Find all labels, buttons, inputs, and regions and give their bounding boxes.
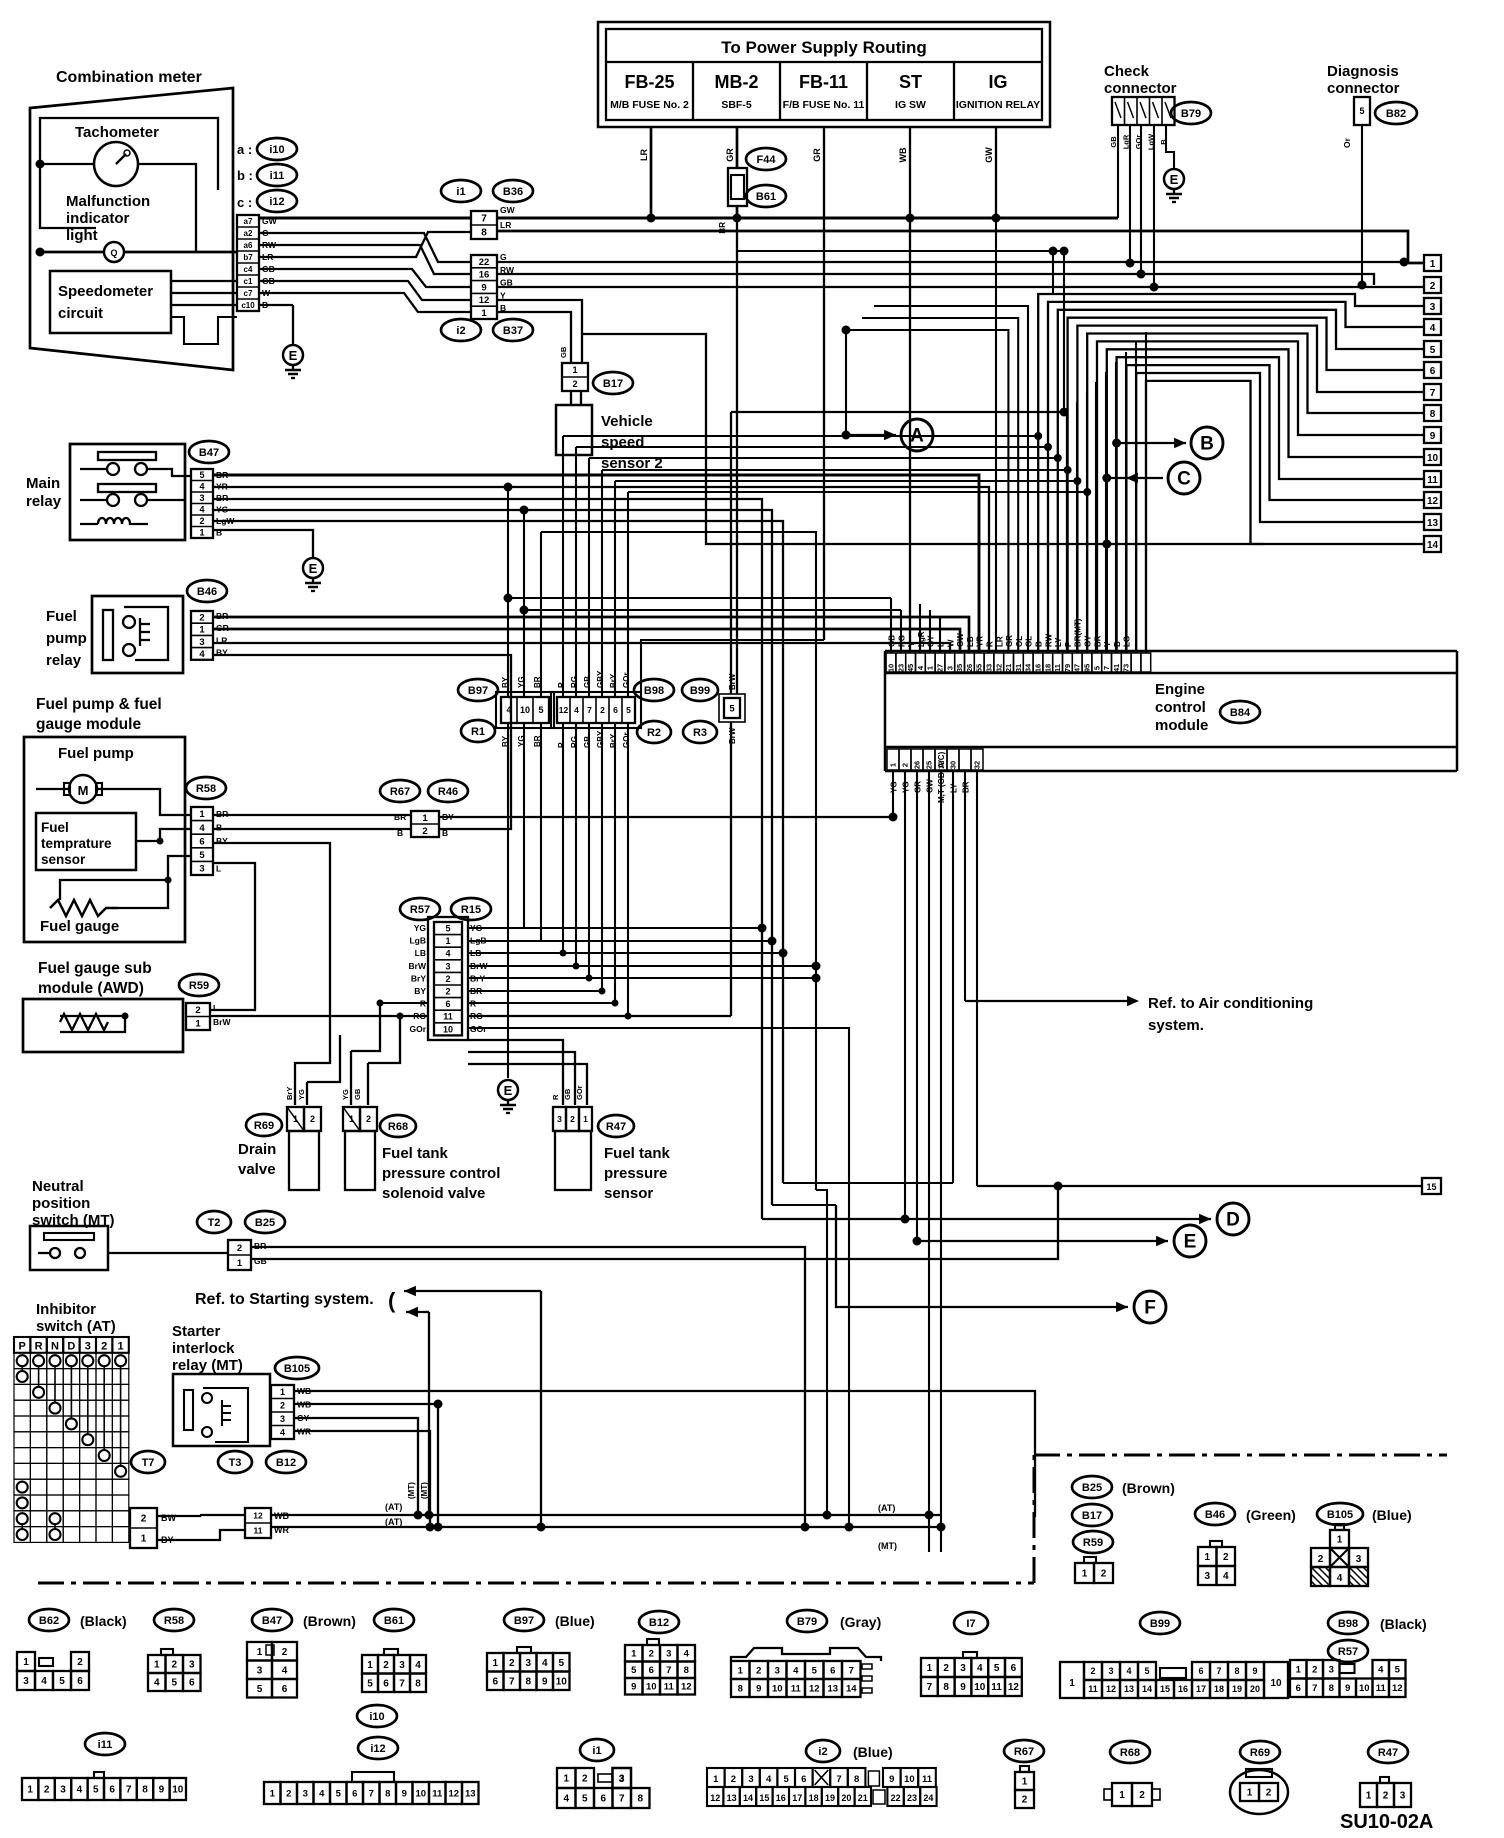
svg-text:RG: RG	[570, 676, 579, 688]
svg-text:1: 1	[280, 1387, 285, 1397]
svg-text:c10: c10	[241, 301, 255, 310]
svg-text:10: 10	[415, 1788, 426, 1799]
svg-text:5: 5	[729, 703, 735, 714]
svg-text:B36: B36	[503, 186, 523, 198]
svg-text:IG: IG	[988, 72, 1007, 92]
svg-text:1: 1	[927, 1663, 933, 1674]
svg-text:10: 10	[443, 1024, 453, 1034]
svg-text:LB: LB	[415, 948, 426, 958]
svg-text:1: 1	[926, 666, 935, 670]
svg-text:3: 3	[1430, 302, 1436, 313]
svg-text:GB: GB	[583, 676, 592, 688]
svg-text:12: 12	[448, 1788, 459, 1799]
svg-text:B: B	[1113, 641, 1122, 647]
svg-text:45: 45	[906, 664, 915, 672]
svg-text:R: R	[35, 1341, 43, 1353]
svg-text:4: 4	[319, 1788, 325, 1799]
svg-text:2: 2	[44, 1785, 50, 1796]
svg-text:R59: R59	[1083, 1537, 1103, 1549]
svg-text:c4: c4	[244, 265, 253, 274]
svg-text:9: 9	[631, 1682, 636, 1693]
svg-text:C: C	[1177, 469, 1191, 490]
svg-text:5: 5	[994, 1663, 1000, 1674]
svg-text:9: 9	[960, 1682, 966, 1693]
svg-text:14: 14	[1142, 1684, 1152, 1694]
svg-text:2: 2	[366, 1114, 371, 1124]
svg-text:6: 6	[199, 836, 204, 847]
svg-text:1: 1	[237, 1258, 243, 1269]
svg-text:14: 14	[846, 1683, 857, 1694]
svg-text:1: 1	[481, 308, 487, 319]
svg-text:(Brown): (Brown)	[303, 1613, 356, 1629]
svg-text:(MT): (MT)	[407, 1482, 416, 1499]
svg-text:2: 2	[286, 1788, 291, 1799]
svg-text:1: 1	[631, 1649, 637, 1660]
svg-text:3: 3	[60, 1785, 66, 1796]
svg-text:13: 13	[727, 1793, 737, 1803]
svg-text:B17: B17	[1082, 1510, 1102, 1522]
svg-text:34: 34	[1024, 663, 1033, 672]
svg-text:10: 10	[974, 1682, 986, 1693]
svg-text:c1: c1	[244, 277, 253, 286]
svg-text:30: 30	[949, 761, 958, 769]
svg-text:B99: B99	[690, 685, 710, 697]
svg-text:GOr: GOr	[409, 1024, 426, 1034]
svg-text:11: 11	[1053, 664, 1062, 672]
svg-text:2: 2	[310, 1114, 315, 1124]
svg-text:11: 11	[432, 1788, 443, 1799]
svg-text:(Blue): (Blue)	[1372, 1507, 1412, 1523]
svg-text:B99: B99	[1150, 1618, 1170, 1630]
svg-text:R69: R69	[254, 1120, 274, 1132]
svg-text:4: 4	[199, 481, 204, 491]
svg-text:4: 4	[766, 1774, 772, 1785]
svg-text:i2: i2	[818, 1746, 827, 1758]
svg-text:4: 4	[199, 823, 205, 834]
svg-text:GB: GB	[1109, 136, 1118, 148]
svg-text:B105: B105	[1327, 1509, 1353, 1521]
svg-text:Fuel: Fuel	[46, 608, 77, 625]
svg-text:18: 18	[1043, 664, 1052, 672]
svg-text:Check: Check	[1104, 63, 1150, 80]
svg-text:7: 7	[927, 1682, 933, 1693]
svg-text:8: 8	[1329, 1683, 1334, 1694]
svg-text:BrY: BrY	[411, 973, 426, 983]
svg-text:B105: B105	[284, 1363, 310, 1375]
svg-text:6: 6	[352, 1788, 357, 1799]
svg-text:T3: T3	[229, 1457, 242, 1469]
svg-text:SBF-5: SBF-5	[721, 99, 751, 111]
svg-text:8: 8	[1430, 409, 1436, 420]
svg-text:6: 6	[77, 1676, 83, 1687]
svg-text:R67: R67	[1014, 1746, 1034, 1758]
svg-text:2: 2	[422, 826, 427, 837]
svg-text:1: 1	[257, 1647, 263, 1658]
svg-text:R15: R15	[461, 904, 481, 916]
svg-text:LG: LG	[1123, 636, 1132, 647]
svg-text:11: 11	[791, 1683, 802, 1694]
svg-text:27: 27	[936, 664, 945, 672]
svg-text:FB-25: FB-25	[624, 72, 674, 92]
svg-text:sensor: sensor	[41, 852, 86, 867]
svg-text:i10: i10	[369, 1711, 384, 1723]
svg-text:24: 24	[923, 1793, 933, 1803]
svg-text:(: (	[388, 1288, 396, 1313]
svg-text:3: 3	[445, 961, 450, 971]
svg-text:4: 4	[793, 1665, 799, 1676]
svg-text:F44: F44	[757, 154, 777, 166]
svg-text:17: 17	[1196, 1684, 1206, 1694]
svg-text:9: 9	[1345, 1683, 1350, 1694]
svg-text:3: 3	[85, 1341, 91, 1353]
svg-text:2: 2	[901, 763, 910, 767]
svg-text:M: M	[78, 783, 89, 798]
svg-text:BR(MT): BR(MT)	[1074, 618, 1083, 647]
svg-text:9: 9	[159, 1785, 165, 1796]
svg-text:GR: GR	[812, 148, 822, 162]
svg-text:11: 11	[443, 1012, 453, 1022]
svg-text:2: 2	[1312, 1665, 1317, 1676]
svg-text:13: 13	[1124, 1684, 1134, 1694]
svg-text:Fuel: Fuel	[41, 820, 69, 835]
svg-text:10: 10	[1359, 1683, 1370, 1694]
svg-text:light: light	[66, 227, 98, 244]
svg-text:13: 13	[1427, 518, 1439, 529]
svg-text:6: 6	[600, 1794, 606, 1805]
svg-text:L: L	[216, 863, 221, 873]
svg-text:R1: R1	[471, 726, 485, 738]
svg-text:(MT): (MT)	[878, 1541, 897, 1551]
svg-text:interlock: interlock	[172, 1340, 235, 1357]
svg-text:LgR: LgR	[917, 631, 926, 647]
svg-text:1: 1	[118, 1341, 124, 1353]
svg-text:79: 79	[1063, 664, 1072, 672]
svg-text:19: 19	[1232, 1684, 1242, 1694]
svg-text:3: 3	[189, 1660, 195, 1671]
svg-text:R57: R57	[1338, 1646, 1358, 1658]
svg-text:19: 19	[825, 1793, 835, 1803]
svg-text:5: 5	[1430, 345, 1436, 356]
svg-text:3: 3	[1108, 1666, 1113, 1676]
svg-text:21: 21	[1004, 664, 1013, 672]
svg-text:5: 5	[1359, 106, 1364, 116]
svg-text:system.: system.	[1148, 1017, 1204, 1034]
svg-text:1: 1	[1296, 1665, 1302, 1676]
svg-text:G: G	[500, 252, 507, 262]
svg-text:8: 8	[385, 1788, 390, 1799]
svg-text:B12: B12	[649, 1617, 669, 1629]
svg-text:7: 7	[619, 1794, 625, 1805]
svg-text:To Power Supply Routing: To Power Supply Routing	[721, 38, 927, 57]
svg-text:GB: GB	[254, 1256, 267, 1266]
svg-text:1: 1	[492, 1658, 498, 1669]
svg-text:10: 10	[646, 1682, 657, 1693]
svg-text:21: 21	[858, 1793, 868, 1803]
svg-text:3: 3	[199, 493, 204, 503]
svg-text:BrW: BrW	[409, 961, 427, 971]
svg-text:4: 4	[199, 504, 204, 514]
svg-text:16: 16	[1034, 664, 1043, 672]
svg-text:Fuel gauge sub: Fuel gauge sub	[38, 960, 152, 977]
svg-text:R47: R47	[606, 1121, 626, 1133]
svg-text:temprature: temprature	[41, 836, 112, 851]
svg-text:3: 3	[525, 1658, 531, 1669]
svg-text:9: 9	[402, 1788, 407, 1799]
svg-text:2: 2	[195, 1005, 200, 1016]
svg-text:D: D	[67, 1341, 75, 1353]
svg-text:5: 5	[199, 470, 204, 480]
svg-text:10: 10	[520, 705, 530, 715]
svg-text:5: 5	[336, 1788, 342, 1799]
svg-text:4: 4	[1378, 1665, 1384, 1676]
svg-text:B17: B17	[603, 378, 623, 390]
svg-text:6: 6	[1198, 1666, 1203, 1676]
svg-text:20: 20	[1250, 1684, 1260, 1694]
svg-text:B84: B84	[1230, 707, 1251, 719]
svg-text:B98: B98	[644, 685, 664, 697]
svg-text:RW: RW	[1044, 633, 1053, 647]
svg-text:9: 9	[481, 282, 486, 293]
svg-text:R: R	[557, 682, 566, 688]
svg-text:3: 3	[557, 1114, 562, 1124]
svg-text:6: 6	[1296, 1683, 1301, 1694]
svg-text:10: 10	[1427, 453, 1439, 464]
svg-text:B79: B79	[1181, 108, 1201, 120]
svg-text:73: 73	[1122, 664, 1131, 672]
svg-text:Ref. to Air conditioning: Ref. to Air conditioning	[1148, 995, 1313, 1012]
svg-text:8: 8	[637, 1794, 643, 1805]
svg-text:41: 41	[1112, 664, 1121, 672]
svg-text:8: 8	[481, 228, 487, 239]
svg-text:5: 5	[538, 705, 543, 715]
svg-text:6: 6	[613, 705, 618, 715]
svg-text:(Black): (Black)	[80, 1613, 127, 1629]
svg-text:3: 3	[1329, 1665, 1334, 1676]
svg-text:SU10-02A: SU10-02A	[1340, 1811, 1433, 1833]
svg-text:6: 6	[801, 1774, 806, 1785]
svg-text:7: 7	[849, 1665, 854, 1676]
svg-text:5: 5	[445, 924, 450, 934]
svg-text:33: 33	[985, 664, 994, 672]
svg-text:LR: LR	[639, 149, 649, 161]
svg-text:BrY: BrY	[609, 673, 618, 688]
svg-text:2: 2	[570, 1114, 575, 1124]
svg-text:4: 4	[199, 649, 205, 660]
svg-text:Y: Y	[1103, 641, 1112, 647]
svg-text:R46: R46	[438, 786, 458, 798]
svg-text:YG: YG	[414, 923, 427, 933]
svg-text:1: 1	[563, 1774, 569, 1785]
svg-text:1: 1	[1022, 1777, 1028, 1788]
svg-text:8: 8	[142, 1785, 148, 1796]
svg-text:1: 1	[572, 365, 577, 375]
svg-text:BW: BW	[161, 1513, 176, 1523]
svg-text:16: 16	[479, 270, 490, 281]
svg-text:12: 12	[479, 295, 490, 306]
svg-text:c :: c :	[237, 195, 252, 210]
svg-text:8: 8	[415, 1678, 421, 1689]
svg-text:5: 5	[1092, 666, 1101, 670]
svg-text:(Blue): (Blue)	[853, 1744, 893, 1760]
svg-text:4: 4	[41, 1676, 47, 1687]
svg-text:B46: B46	[197, 586, 217, 598]
svg-text:R58: R58	[196, 783, 216, 795]
svg-text:2: 2	[445, 974, 450, 984]
svg-text:5: 5	[257, 1684, 263, 1695]
svg-text:3: 3	[280, 1414, 285, 1424]
svg-text:4: 4	[574, 705, 579, 715]
svg-text:3: 3	[1356, 1554, 1362, 1565]
svg-text:(Blue): (Blue)	[555, 1613, 595, 1629]
svg-text:connector: connector	[1327, 80, 1400, 97]
svg-text:2: 2	[731, 1774, 736, 1785]
svg-text:solenoid valve: solenoid valve	[382, 1185, 485, 1202]
svg-text:12: 12	[1392, 1683, 1403, 1694]
svg-text:BY: BY	[414, 986, 426, 996]
svg-text:P: P	[19, 1341, 26, 1353]
svg-text:6: 6	[830, 1665, 835, 1676]
svg-text:2: 2	[572, 379, 577, 389]
svg-text:(MT): (MT)	[420, 1482, 429, 1499]
svg-text:Diagnosis: Diagnosis	[1327, 63, 1399, 80]
svg-text:(AT): (AT)	[878, 1503, 895, 1513]
svg-text:B61: B61	[756, 191, 776, 203]
svg-text:15: 15	[1160, 1684, 1170, 1694]
svg-text:I7: I7	[966, 1618, 975, 1630]
svg-text:B97: B97	[514, 1615, 534, 1627]
svg-text:B25: B25	[1082, 1482, 1102, 1494]
svg-text:6: 6	[109, 1785, 115, 1796]
svg-text:Malfunction: Malfunction	[66, 193, 150, 210]
svg-text:1: 1	[195, 1019, 201, 1030]
svg-text:2: 2	[1318, 1554, 1324, 1565]
svg-text:17: 17	[792, 1793, 802, 1803]
svg-text:BrW: BrW	[728, 673, 737, 690]
svg-text:9: 9	[1430, 431, 1436, 442]
svg-text:valve: valve	[238, 1161, 276, 1178]
svg-text:11: 11	[1088, 1684, 1098, 1694]
svg-text:4: 4	[977, 1663, 983, 1674]
svg-text:R2: R2	[647, 727, 661, 739]
svg-text:3: 3	[257, 1665, 263, 1676]
svg-text:pressure control: pressure control	[382, 1165, 500, 1182]
svg-text:relay: relay	[26, 493, 62, 510]
svg-text:2: 2	[383, 1660, 389, 1671]
svg-text:7: 7	[666, 1665, 671, 1676]
svg-text:4: 4	[77, 1785, 83, 1796]
svg-text:Combination meter: Combination meter	[56, 69, 202, 86]
svg-text:31: 31	[1014, 664, 1023, 672]
svg-text:circuit: circuit	[58, 305, 103, 322]
svg-text:R57: R57	[410, 904, 430, 916]
svg-text:8: 8	[854, 1774, 859, 1785]
svg-text:22: 22	[479, 257, 490, 268]
svg-text:FB-11: FB-11	[799, 72, 848, 92]
svg-text:1: 1	[23, 1657, 29, 1668]
svg-text:6: 6	[1011, 1663, 1017, 1674]
svg-text:6: 6	[1430, 366, 1436, 377]
svg-text:7: 7	[481, 214, 487, 225]
svg-text:B12: B12	[276, 1457, 296, 1469]
svg-text:2: 2	[943, 1663, 949, 1674]
svg-text:GW: GW	[500, 205, 516, 215]
svg-text:1: 1	[1082, 1569, 1088, 1580]
svg-text:switch (AT): switch (AT)	[36, 1318, 116, 1335]
svg-text:2: 2	[1139, 1790, 1145, 1801]
svg-text:R69: R69	[1250, 1747, 1270, 1759]
svg-text:5: 5	[784, 1774, 790, 1785]
svg-text:12: 12	[1427, 496, 1439, 507]
svg-text:8: 8	[684, 1665, 689, 1676]
svg-text:GR: GR	[1005, 635, 1014, 647]
svg-text:47: 47	[1073, 664, 1082, 672]
svg-text:IG SW: IG SW	[895, 99, 926, 111]
svg-text:Engine: Engine	[1155, 681, 1205, 698]
svg-text:sensor: sensor	[604, 1185, 653, 1202]
svg-text:7: 7	[369, 1788, 374, 1799]
svg-text:12: 12	[681, 1682, 692, 1693]
svg-text:22: 22	[891, 1793, 901, 1803]
svg-text:GB: GB	[583, 736, 592, 748]
svg-text:P: P	[1064, 641, 1073, 647]
svg-text:5: 5	[199, 850, 205, 861]
svg-text:13: 13	[465, 1788, 476, 1799]
svg-text:i1: i1	[592, 1745, 601, 1757]
svg-text:10: 10	[772, 1683, 783, 1694]
svg-text:12: 12	[1106, 1684, 1116, 1694]
svg-text:4: 4	[154, 1678, 160, 1689]
svg-text:11: 11	[991, 1682, 1002, 1693]
svg-text:LR: LR	[995, 636, 1004, 647]
svg-text:2: 2	[141, 1514, 147, 1525]
svg-text:2: 2	[509, 1658, 515, 1669]
svg-text:R59: R59	[189, 980, 209, 992]
svg-text:4: 4	[445, 949, 450, 959]
svg-text:Starter: Starter	[172, 1323, 221, 1340]
svg-text:WB: WB	[898, 147, 908, 162]
svg-text:BrW: BrW	[728, 727, 737, 744]
svg-text:7: 7	[836, 1774, 841, 1785]
svg-text:4: 4	[684, 1649, 690, 1660]
svg-text:L: L	[213, 1003, 218, 1013]
svg-text:2: 2	[1101, 1569, 1107, 1580]
svg-text:BR: BR	[1093, 635, 1102, 647]
svg-text:11: 11	[922, 1774, 933, 1785]
svg-text:2: 2	[1090, 1666, 1095, 1676]
svg-text:relay (MT): relay (MT)	[172, 1357, 243, 1374]
svg-text:2: 2	[649, 1649, 654, 1660]
svg-text:9: 9	[1252, 1666, 1257, 1676]
svg-text:7: 7	[1102, 666, 1111, 670]
svg-text:16: 16	[1178, 1684, 1188, 1694]
svg-text:LR: LR	[500, 220, 511, 230]
svg-text:1: 1	[1337, 1535, 1343, 1546]
svg-text:(Brown): (Brown)	[1122, 1480, 1175, 1496]
svg-text:B82: B82	[1386, 108, 1406, 120]
svg-text:10: 10	[1270, 1678, 1282, 1689]
svg-text:R58: R58	[164, 1615, 184, 1627]
svg-text:4: 4	[1223, 1571, 1229, 1582]
svg-text:3: 3	[748, 1774, 753, 1785]
svg-text:YG: YG	[341, 1089, 350, 1100]
svg-text:4: 4	[280, 1427, 285, 1437]
svg-text:M/B FUSE No. 2: M/B FUSE No. 2	[610, 99, 689, 111]
svg-text:R67: R67	[390, 786, 410, 798]
svg-text:1: 1	[889, 763, 898, 767]
svg-text:B98: B98	[1338, 1618, 1358, 1630]
svg-text:Fuel pump & fuel: Fuel pump & fuel	[36, 696, 162, 713]
svg-text:B25: B25	[255, 1217, 275, 1229]
